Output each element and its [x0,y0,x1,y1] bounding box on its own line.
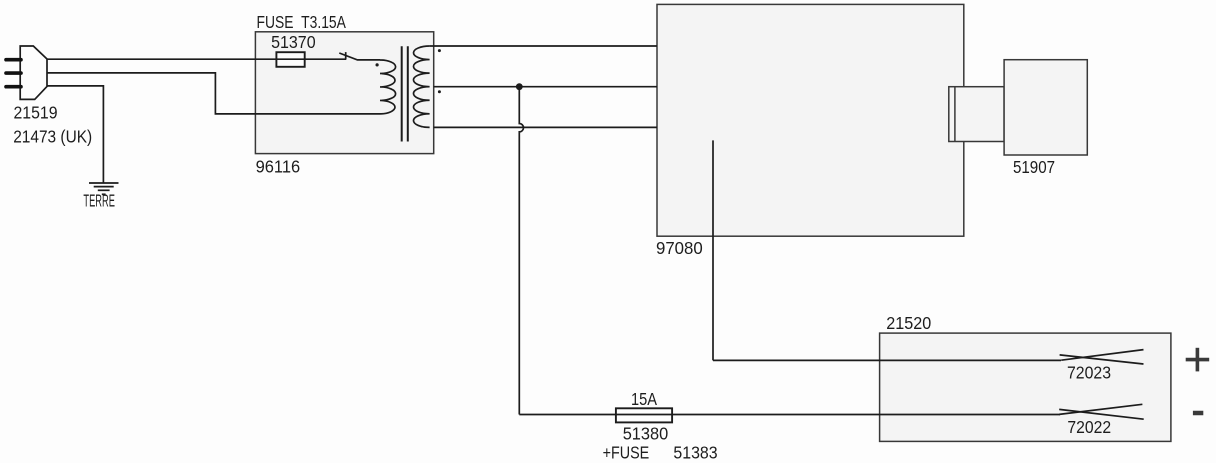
svg-text:51370: 51370 [271,32,316,52]
wire secondary bottom to 97080 [434,126,657,128]
svg-text:51907: 51907 [1013,157,1055,177]
svg-text:+FUSE: +FUSE [603,443,650,463]
svg-text:FUSE T3.15A: FUSE T3.15A [257,12,347,32]
connector inner pin line [954,87,956,142]
plug pin 3 [6,85,21,89]
wire earth: plug to ground [47,86,103,183]
wire neutral: plug to transformer primary bottom [47,73,380,114]
minus terminal symbol [1193,411,1203,416]
mains plug 21519 body [20,46,47,99]
transformer T1 secondary winding [413,46,429,127]
splice X 72023 [1060,350,1144,364]
fuse F1 51370 [276,52,304,67]
svg-text:96116: 96116 [256,157,301,177]
wire live: plug to fuse and switch [47,58,346,60]
wire bottom horizontal to battery box [519,414,1060,416]
connector plug into 97080 [949,87,1004,142]
svg-text:21473 (UK): 21473 (UK) [13,126,92,146]
svg-text:15A: 15A [631,389,657,409]
module box 96116 (transformer unit) [255,32,433,154]
wire secondary top to 97080 [430,45,657,47]
svg-text:TERRE: TERRE [83,191,115,211]
battery box 21520 [880,333,1171,441]
junction node on middle wire [516,83,523,90]
svg-text:51383: 51383 [673,443,717,463]
svg-text:72023: 72023 [1067,363,1111,383]
transformer T1 primary winding [380,60,396,114]
splice X 72022 [1059,404,1144,419]
secondary middle polarity dot [438,90,441,93]
fuse F2 15A 51380 [616,408,672,422]
primary polarity dot [376,63,379,66]
plug pin 2 [6,71,21,75]
plus terminal symbol [1186,348,1210,372]
switch S1 blade [339,53,380,60]
switch S1 contact tick [345,52,347,60]
transformer T1 core [402,46,408,141]
svg-text:21520: 21520 [886,313,931,333]
plug pin 1 [6,58,21,62]
wire horizontal to battery box top [713,359,1061,361]
svg-text:97080: 97080 [656,238,703,258]
svg-text:51380: 51380 [623,424,669,444]
wire secondary middle to 97080 [434,86,657,88]
fuse F1 interior underlay [277,53,303,66]
wire 97080 internal down to battery box [712,140,714,360]
module box 97080 (main unit) [657,4,964,236]
wire junction down with hop over bottom wire [519,87,523,415]
svg-text:21519: 21519 [14,103,58,123]
module box 51907 [1004,60,1087,155]
secondary top polarity dot [438,49,441,52]
svg-text:72022: 72022 [1067,417,1111,437]
ground TERRE symbol [89,183,119,194]
